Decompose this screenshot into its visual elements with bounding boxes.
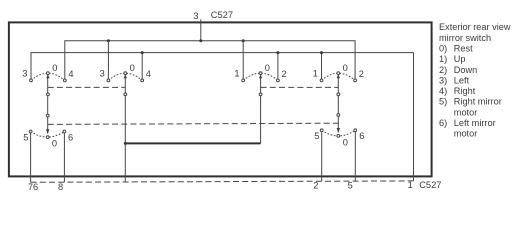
switch housing border (9, 22, 432, 176)
SW1 contact arc (31, 73, 65, 80)
SW3 rest contact 0 (259, 72, 262, 75)
SW6 contact 5 terminal (320, 129, 323, 132)
svg-text:3: 3 (193, 11, 198, 21)
svg-text:5: 5 (314, 131, 319, 141)
wire: SW2 contact 4 to bus 2 (141, 53, 143, 81)
svg-text:0: 0 (52, 63, 57, 73)
svg-text:0: 0 (52, 139, 57, 149)
junction: SW2 c4 / bus2 (141, 51, 144, 54)
bus 1 (upper horizontal wire) (65, 41, 355, 81)
SW3 contact 1 terminal (242, 79, 245, 82)
SW2 contact arc (108, 73, 142, 80)
SW4 contact 2 terminal (354, 79, 357, 82)
SW6 wiper arrowhead (337, 128, 340, 133)
wiper shaft SW4 / SW6 (337, 75, 339, 133)
svg-text:4: 4 (146, 69, 151, 79)
svg-text:0: 0 (130, 63, 135, 73)
SW1 wiper arrowhead (46, 75, 49, 79)
svg-text:Left mirror: Left mirror (454, 118, 496, 128)
wire: SW5 contact 5 to pin 7/6 (30, 132, 32, 183)
wire: SW6 contact 6 to pin 5 (354, 130, 356, 181)
svg-text:5: 5 (23, 132, 28, 142)
svg-text:3): 3) (439, 75, 447, 85)
SW5 rest contact 0 (46, 136, 49, 139)
svg-text:motor: motor (454, 129, 478, 139)
SW2 rest contact 0 (124, 72, 127, 75)
svg-text:C527: C527 (419, 180, 441, 190)
SW4 rest contact 0 (337, 72, 340, 75)
SW1 wiper pivot (47, 93, 50, 96)
junction: pin3 lead / bus1 (199, 39, 202, 42)
svg-text:1: 1 (313, 68, 318, 78)
bus 2 (lower horizontal wire) (31, 53, 414, 181)
svg-text:5): 5) (439, 97, 447, 107)
SW4 contact arc (322, 73, 356, 80)
svg-text:5: 5 (348, 181, 353, 191)
wire: SW3 contact 2 to bus 2 (277, 53, 279, 81)
svg-text:mirror switch: mirror switch (439, 33, 491, 43)
SW4 wiper arrowhead (337, 75, 340, 79)
junction: SW4 c1 / bus2 (320, 51, 323, 54)
SW2 wiper arrowhead (124, 75, 127, 79)
svg-text:0: 0 (265, 63, 270, 73)
svg-text:1: 1 (408, 180, 413, 190)
wire: SW2 contact 3 to bus 1 (107, 41, 109, 81)
wire: SW6 contact 5 to pin 2 (321, 130, 323, 181)
SW6 contact 6 terminal (354, 129, 357, 132)
connector C527 dashed line (31, 181, 414, 182)
SW5 actuator pivot (46, 114, 49, 117)
svg-text:Right: Right (454, 86, 476, 96)
svg-text:6: 6 (359, 131, 364, 141)
SW4 wiper pivot (337, 93, 340, 96)
svg-text:0: 0 (343, 63, 348, 73)
SW1 contact 3 terminal (30, 79, 33, 82)
svg-text:Right mirror: Right mirror (454, 97, 502, 107)
svg-text:1: 1 (234, 68, 239, 78)
junction: SW2 wiper / SW3 wire (124, 142, 127, 145)
SW5 contact 6 terminal (63, 130, 66, 133)
svg-text:1): 1) (439, 54, 447, 64)
svg-text:6: 6 (68, 132, 73, 142)
SW5 contact arc (31, 132, 65, 138)
svg-text:2: 2 (282, 69, 287, 79)
SW2 contact 3 terminal (107, 79, 110, 82)
wiper shaft SW3 (260, 75, 262, 144)
legend: component description (439, 22, 511, 139)
svg-text:C527: C527 (211, 10, 233, 20)
svg-text:Up: Up (454, 54, 466, 64)
svg-text:2: 2 (313, 181, 318, 191)
mechanical link SW1-SW2 (48, 86, 126, 88)
svg-text:2: 2 (359, 69, 364, 79)
SW3 contact 2 terminal (277, 79, 280, 82)
wiper shaft SW2 down to unlabeled pin (124, 75, 126, 182)
SW3 wiper arrowhead (259, 75, 262, 79)
svg-text:2): 2) (439, 65, 447, 75)
svg-text:4): 4) (439, 86, 447, 96)
svg-text:motor: motor (454, 107, 478, 117)
wire: SW4 contact 1 to bus 2 (321, 53, 323, 81)
mechanical link SW5-SW6 (48, 123, 339, 124)
SW4 contact 1 terminal (320, 79, 323, 82)
SW3 wiper pivot (259, 93, 262, 96)
SW5 wiper arrowhead (46, 129, 49, 134)
svg-text:3: 3 (22, 68, 27, 78)
SW6 actuator pivot (337, 114, 340, 117)
wire: SW5 contact 6 to pin 8 (63, 132, 65, 183)
svg-text:76: 76 (28, 182, 38, 192)
junction: SW3 c2 / bus2 (276, 51, 279, 54)
SW2 contact 4 terminal (141, 79, 144, 82)
svg-text:Down: Down (454, 65, 478, 75)
SW5 contact 5 terminal (29, 130, 32, 133)
svg-text:3: 3 (100, 68, 105, 78)
pin 3 lead through housing top (200, 19, 202, 41)
SW2 wiper pivot (124, 93, 127, 96)
junction: SW3 c1 / bus1 (242, 39, 245, 42)
svg-text:Exterior rear view: Exterior rear view (439, 22, 511, 32)
svg-text:Rest: Rest (454, 43, 473, 53)
SW6 rest contact 0 (337, 135, 340, 138)
SW1 rest contact 0 (47, 72, 50, 75)
SW3 contact arc (243, 73, 278, 80)
svg-text:8: 8 (58, 182, 63, 192)
svg-text:0): 0) (439, 43, 447, 53)
svg-text:0: 0 (343, 137, 348, 147)
svg-text:Left: Left (454, 75, 470, 85)
mechanical link SW3-SW4 (261, 86, 339, 88)
wire joining SW2 and SW3 wipers (125, 142, 260, 144)
SW6 contact arc (322, 130, 356, 136)
svg-text:6): 6) (439, 118, 447, 128)
SW1 contact 4 terminal (63, 79, 66, 82)
wiper shaft SW1 / SW5 (47, 75, 49, 134)
wire: SW3 contact 1 to bus 1 (242, 41, 244, 81)
svg-text:4: 4 (68, 69, 73, 79)
junction: SW2 c3 / bus1 (107, 39, 110, 42)
